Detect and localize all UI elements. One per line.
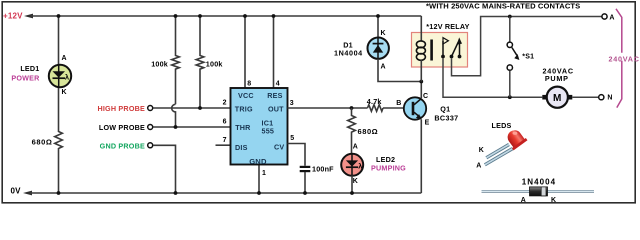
svg-text:A: A [476, 162, 481, 169]
svg-text:LEDS: LEDS [492, 121, 512, 130]
wire cap to 0V [304, 172, 306, 193]
wire relay common to live [452, 17, 602, 76]
wire D1 to collector node [378, 59, 421, 82]
svg-text:5: 5 [290, 135, 294, 142]
svg-text:PUMP: PUMP [545, 74, 569, 83]
svg-text:4: 4 [276, 80, 280, 87]
svg-text:K: K [381, 30, 386, 37]
svg-text:K: K [353, 178, 358, 185]
probe LOW terminal [148, 125, 153, 130]
svg-text:*WITH 250VAC MAINS-RATED CONTA: *WITH 250VAC MAINS-RATED CONTACTS [426, 1, 580, 10]
1N4004 legend drawing [482, 187, 595, 196]
svg-text:GND PROBE: GND PROBE [100, 141, 145, 150]
resistor 680ohm left [55, 132, 63, 149]
switch S1 wire top [509, 17, 511, 43]
svg-text:Q1: Q1 [440, 104, 450, 113]
svg-text:680Ω: 680Ω [358, 127, 379, 136]
svg-text:6: 6 [223, 119, 227, 126]
switch S1 wire bottom [509, 71, 511, 97]
wire motor to N [572, 96, 598, 98]
svg-text:A: A [62, 55, 67, 62]
svg-text:PUMPING: PUMPING [371, 163, 406, 172]
relay contact pole1 [442, 41, 444, 57]
svg-text:100k: 100k [151, 59, 168, 68]
wire THR row [153, 126, 231, 128]
motor pump M [542, 87, 572, 108]
relay core bar [430, 40, 433, 61]
wire GND probe to 0V [153, 145, 176, 193]
junction R1 THR [174, 125, 178, 129]
wire OUT row [288, 107, 368, 109]
junction collector node [419, 80, 423, 84]
terminal A [602, 14, 607, 19]
svg-text:555: 555 [262, 127, 275, 136]
svg-text:100nF: 100nF [312, 164, 334, 173]
svg-text:K: K [551, 197, 556, 204]
junction cap 0V [303, 191, 307, 195]
svg-text:TRIG: TRIG [235, 105, 253, 114]
svg-text:CV: CV [274, 143, 284, 152]
capacitor 100nF [300, 167, 311, 171]
resistor R2 100k [196, 16, 204, 108]
svg-text:0V: 0V [11, 186, 22, 195]
svg-text:*S1: *S1 [522, 54, 534, 61]
svg-text:1: 1 [262, 170, 266, 177]
svg-text:N: N [607, 95, 612, 102]
svg-text:*12V RELAY: *12V RELAY [426, 22, 469, 31]
svg-text:+12V: +12V [3, 12, 23, 21]
svg-text:A: A [353, 144, 358, 151]
wire hop over TRIG [172, 104, 176, 127]
wire +12V rail [31, 15, 421, 17]
relay coil wire bottom [420, 60, 422, 81]
LED legend drawing [485, 126, 528, 164]
probe GND terminal [148, 143, 153, 148]
wire LED2 to 0V [351, 175, 353, 193]
wire collector up [420, 82, 422, 99]
junction R1 top [174, 14, 178, 18]
junction D1 rail [376, 14, 380, 18]
svg-text:GND: GND [249, 157, 267, 166]
junction R2 TRIG [198, 106, 202, 110]
wire TRIG row [153, 107, 231, 109]
wire CV stub [288, 144, 306, 166]
junction GND probe 0V [174, 191, 178, 195]
svg-text:POWER: POWER [11, 74, 40, 83]
wire 4.7k to base [383, 107, 412, 109]
svg-text:2: 2 [223, 99, 227, 106]
junction pump line S1 [508, 95, 512, 99]
transistor Q1 [404, 97, 426, 119]
relay RLA1 box [412, 33, 468, 68]
junction VCC rail [243, 14, 247, 18]
svg-text:RES: RES [267, 91, 282, 100]
junction 0V rail LED1 [57, 191, 61, 195]
relay coil wire top [420, 16, 422, 41]
junction top rail LED1 [57, 14, 61, 18]
LED1 [49, 65, 71, 88]
svg-text:B: B [396, 100, 401, 107]
svg-text:λ: λ [358, 162, 363, 171]
relay contact pole3 [459, 44, 461, 57]
junction GND pin 0V [257, 191, 261, 195]
svg-text:DIS: DIS [235, 143, 248, 152]
wire +12V rail arrowhead [24, 14, 33, 19]
wire emitter down to 0V [420, 120, 422, 194]
diode D1 [368, 38, 389, 59]
junction live S1 [508, 15, 512, 19]
svg-text:K: K [62, 89, 67, 96]
svg-text:K: K [479, 147, 484, 154]
svg-text:HIGH PROBE: HIGH PROBE [97, 104, 145, 113]
resistor 680ohm right [348, 108, 356, 154]
svg-text:7: 7 [223, 137, 227, 144]
wire 0V rail arrowhead [23, 191, 32, 196]
svg-text:A: A [609, 15, 614, 22]
svg-text:1N4004: 1N4004 [522, 178, 556, 187]
wire RES pin4 [273, 16, 275, 88]
junction RES rail [272, 14, 276, 18]
svg-text:OUT: OUT [268, 105, 284, 114]
svg-text:A: A [521, 197, 526, 204]
relay armature contact [452, 42, 459, 57]
svg-text:1N4004: 1N4004 [334, 48, 363, 57]
svg-text:THR: THR [235, 123, 251, 132]
svg-text:3: 3 [290, 100, 294, 107]
bracket 240VAC mains [616, 9, 622, 53]
junction LED2 0V [350, 191, 354, 195]
junction R2 top [198, 14, 202, 18]
resistor 4.7k [368, 105, 384, 112]
svg-text:LED1: LED1 [20, 64, 39, 73]
wire LED1 branch vertical [58, 16, 60, 65]
svg-text:240VAC: 240VAC [609, 54, 640, 63]
svg-text:A: A [381, 63, 386, 70]
junction OUT branch [350, 106, 354, 110]
svg-text:λ: λ [65, 72, 70, 81]
svg-text:BC337: BC337 [434, 113, 458, 122]
relay coil loops [416, 41, 425, 60]
wire GND pin1 [258, 165, 260, 194]
svg-text:M: M [553, 93, 562, 104]
svg-text:8: 8 [247, 80, 251, 87]
terminal N [599, 95, 604, 100]
wire VCC pin8 [244, 16, 246, 88]
probe HIGH terminal [148, 106, 153, 111]
svg-text:C: C [423, 93, 428, 100]
svg-text:LOW PROBE: LOW PROBE [99, 123, 145, 132]
IC IC1 555 timer body [231, 88, 288, 165]
switch S1 [507, 42, 519, 70]
svg-text:4.7k: 4.7k [367, 97, 382, 106]
resistor R1 100k [172, 16, 180, 104]
svg-text:VCC: VCC [238, 91, 254, 100]
LED2 [341, 154, 363, 176]
svg-text:100k: 100k [206, 59, 223, 68]
wire relay NO contact to pump line [443, 58, 542, 97]
svg-text:680Ω: 680Ω [32, 137, 53, 146]
wire DIS stub pin7 [216, 144, 231, 146]
wire 0V rail [30, 192, 421, 194]
svg-text:E: E [425, 120, 430, 127]
diode D1 branch wire [377, 16, 379, 38]
